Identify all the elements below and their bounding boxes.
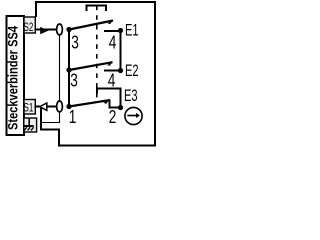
switch blade row1 (NO contact 3-4) <box>69 21 113 30</box>
fixed contact row1 <box>104 30 121 32</box>
plug oval row1 <box>57 24 63 35</box>
dashed actuator line <box>96 6 98 104</box>
big box Steckverbinder SS4 <box>7 16 25 135</box>
actuator bracket <box>87 6 107 12</box>
svg-text:1: 1 <box>69 106 77 127</box>
wire: ground return loop (top, right, bottom segments) <box>36 2 155 146</box>
earth symbol <box>24 119 34 131</box>
plug oval row3 <box>57 101 63 112</box>
node dot row2 <box>66 67 71 72</box>
wire: vertical bus <box>68 30 70 107</box>
svg-text:S1: S1 <box>24 101 34 115</box>
arrow open left (signal direction) <box>40 103 47 110</box>
svg-text:4: 4 <box>109 32 117 53</box>
svg-text:E3: E3 <box>124 87 138 105</box>
wire: row1 from S2 to plug <box>35 29 60 31</box>
svg-text:E1: E1 <box>125 21 139 39</box>
wire: link E1-E2 <box>120 31 122 71</box>
switch blade row3 (NC contact 1-2) <box>69 100 109 106</box>
blade tip wedge row1 <box>108 20 114 24</box>
node E3 <box>118 105 123 110</box>
box S1 <box>24 100 35 115</box>
blade tip wedge <box>104 98 111 104</box>
elevated contact link row3 <box>97 89 121 108</box>
fixed contact row2 <box>104 70 121 72</box>
svg-text:E2: E2 <box>125 62 139 80</box>
svg-text:2: 2 <box>109 106 117 127</box>
node dot row1 <box>66 27 71 32</box>
node dot row3 <box>66 104 71 109</box>
box S2 <box>24 17 35 33</box>
switch blade row2 (NO contact 3-4) <box>69 62 113 70</box>
contact stub row3 <box>110 100 121 108</box>
svg-text:3: 3 <box>70 70 78 91</box>
svg-text:4: 4 <box>108 70 116 91</box>
svg-text:Steckverbinder SS4: Steckverbinder SS4 <box>5 26 21 130</box>
wire: thin connector line through plug ovals <box>41 29 60 123</box>
node E2 <box>118 68 123 73</box>
svg-text:3: 3 <box>71 32 79 53</box>
arrow solid right (signal direction) <box>40 27 48 34</box>
svg-text:S2: S2 <box>24 20 34 34</box>
outgoing signal circle with arrow <box>125 107 142 124</box>
node E1 <box>118 28 123 33</box>
blade tip wedge row2 <box>107 62 113 66</box>
earth clamp box <box>24 118 37 132</box>
wire: row3 from S1 to plug <box>35 106 60 108</box>
